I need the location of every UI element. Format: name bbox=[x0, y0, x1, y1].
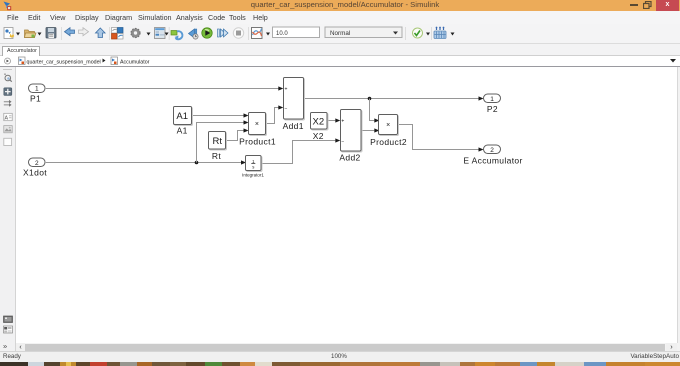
window title bbox=[0, 0, 680, 11]
svg-text:−: − bbox=[341, 139, 344, 145]
svg-text:Rt: Rt bbox=[212, 151, 221, 161]
junction X1dot branch bbox=[195, 161, 199, 165]
svg-text:E Accumulator: E Accumulator bbox=[463, 156, 522, 166]
stop button bbox=[233, 28, 243, 38]
up arrow bbox=[96, 28, 106, 38]
inport X1dot bbox=[23, 158, 47, 178]
junction Add1 output branch bbox=[368, 97, 372, 101]
breadcrumb bar bbox=[0, 56, 680, 67]
svg-text:A1: A1 bbox=[177, 125, 188, 135]
window buttons bbox=[630, 4, 638, 6]
wire P1 to Add1 bbox=[46, 86, 283, 90]
sum Add2 bbox=[339, 110, 362, 163]
wire Integrator1 to Add2 bbox=[261, 138, 340, 163]
environment icon bbox=[434, 27, 446, 39]
svg-text:Product2: Product2 bbox=[370, 137, 407, 147]
back arrow bbox=[65, 28, 75, 36]
wire Rt to Product1 bbox=[226, 128, 249, 140]
left palette bbox=[0, 67, 16, 351]
forward arrow (disabled) bbox=[79, 28, 89, 36]
wire Add1 branch to Product2 bbox=[370, 99, 380, 123]
svg-text:2: 2 bbox=[490, 147, 494, 154]
mode dropdown bbox=[325, 27, 402, 38]
gain Rt bbox=[209, 132, 227, 161]
vertical scrollbar bbox=[677, 67, 680, 343]
taskbar sliver bbox=[0, 362, 680, 366]
svg-text:1: 1 bbox=[490, 96, 494, 103]
svg-text:−: − bbox=[284, 106, 287, 112]
gear icon bbox=[131, 28, 140, 37]
save icon bbox=[46, 28, 56, 39]
svg-text:X1dot: X1dot bbox=[23, 168, 47, 178]
menu bar bbox=[0, 11, 680, 24]
outport E Accumulator bbox=[463, 145, 522, 166]
gain X2 bbox=[311, 113, 329, 141]
simulation data inspector icon bbox=[252, 28, 263, 39]
svg-text:Product1: Product1 bbox=[239, 136, 276, 146]
svg-text:s: s bbox=[252, 165, 254, 170]
wire Add1 to P2 bbox=[304, 96, 484, 100]
wire Product2 to E Accumulator bbox=[398, 125, 484, 152]
svg-text:P2: P2 bbox=[487, 104, 498, 114]
svg-text:Add1: Add1 bbox=[283, 121, 304, 131]
step back (time) icon bbox=[189, 29, 199, 39]
sim time field bbox=[273, 27, 320, 38]
sum Add1 bbox=[283, 78, 305, 131]
horizontal scrollbar bbox=[16, 343, 680, 351]
update diagram icon bbox=[413, 28, 423, 38]
run button bbox=[202, 28, 212, 38]
wire X1dot to Integrator1 bbox=[46, 160, 246, 164]
wire A1 to Product1 bbox=[192, 113, 249, 117]
simulink app icon bbox=[2, 0, 14, 11]
svg-text:×: × bbox=[255, 121, 259, 128]
open icon bbox=[25, 30, 37, 38]
wire Add2 to Product2 bbox=[361, 128, 379, 132]
step forward icon bbox=[218, 29, 229, 37]
wire X1dot branch to Product1 bbox=[197, 120, 249, 162]
canvas bbox=[16, 67, 677, 343]
svg-text:P1: P1 bbox=[30, 93, 41, 103]
product Product1 bbox=[239, 113, 276, 147]
svg-text:1: 1 bbox=[35, 86, 39, 93]
svg-text:×: × bbox=[386, 122, 390, 129]
svg-text:Add2: Add2 bbox=[339, 153, 360, 163]
svg-text:+: + bbox=[284, 86, 287, 92]
status bar bbox=[0, 351, 680, 362]
new model icon bbox=[4, 28, 14, 39]
outport P2 bbox=[484, 94, 501, 114]
library browser icon bbox=[112, 28, 124, 40]
integrator Integrator1 bbox=[242, 156, 264, 178]
wire Product1 to Add1 bbox=[266, 105, 284, 123]
svg-text:Integrator1: Integrator1 bbox=[242, 172, 264, 177]
tab bar bbox=[0, 44, 680, 56]
product Product2 bbox=[370, 115, 407, 147]
gain A1 bbox=[174, 107, 193, 136]
svg-text:2: 2 bbox=[35, 160, 39, 167]
svg-text:A1: A1 bbox=[176, 111, 188, 122]
model settings icon bbox=[155, 28, 166, 39]
inport P1 bbox=[29, 84, 46, 103]
wire X2 to Add2 bbox=[327, 118, 340, 122]
toolbar bbox=[0, 24, 680, 44]
svg-text:Rt: Rt bbox=[213, 136, 223, 147]
step back icon bbox=[171, 31, 182, 40]
svg-text:X2: X2 bbox=[312, 116, 324, 127]
svg-text:+: + bbox=[341, 119, 344, 125]
svg-text:X2: X2 bbox=[313, 131, 324, 141]
title bar bbox=[0, 0, 680, 11]
